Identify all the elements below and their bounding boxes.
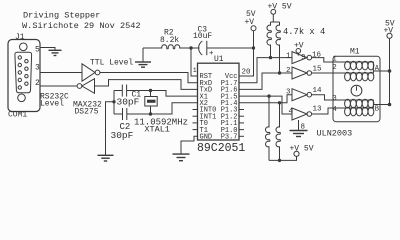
J1 mounting hole bottom [18, 94, 26, 102]
wire X1 row [114, 90, 122, 92]
buffer U2a (RxD receiver) [82, 64, 95, 81]
svg-text:P3.7: P3.7 [221, 134, 238, 142]
U1 left pin names [200, 73, 217, 141]
svg-text:5: 5 [35, 46, 40, 55]
svg-text:3: 3 [333, 95, 337, 103]
wire P1.6 to inverter2 [239, 73, 292, 89]
svg-text:2: 2 [333, 64, 337, 72]
capacitor C3 labels [193, 25, 212, 41]
motor M1 box [333, 56, 380, 122]
wire X2 row [114, 113, 123, 115]
ground (U1 GND) [173, 154, 190, 161]
terminal 5V +V (motor supply) [384, 19, 395, 35]
wire P1.7 to inverter1 [239, 58, 292, 83]
motor rotor symbol [351, 85, 362, 96]
inverter ULN2003 ch2 [292, 67, 307, 79]
wire GND to ground [181, 136, 198, 154]
svg-text:DS275: DS275 [75, 108, 99, 117]
svg-text:13: 13 [313, 106, 323, 114]
wire resistor bottoms to +V [269, 156, 297, 160]
terminal +V 5V (resistors bottom) [294, 151, 299, 156]
resistor R2 [143, 45, 191, 49]
coil winding 2 [345, 72, 374, 81]
wire resistor tops [272, 14, 274, 22]
capacitor C1 [121, 85, 123, 97]
J1 pin shroud trapezoid [15, 52, 32, 92]
wire ch2 out to motor coil 2 [312, 72, 342, 74]
resistor 4.7k c (bottom col1) [265, 96, 269, 160]
coil winding 3 [345, 99, 374, 108]
svg-text:30pF: 30pF [111, 130, 134, 141]
svg-text:4: 4 [333, 106, 337, 114]
capacitor C2 labels [111, 122, 134, 141]
node RST junction [189, 46, 192, 49]
inverter ULN2003 ch4 [292, 108, 307, 120]
wire cap ground rail [113, 91, 115, 115]
ground (ULN2003 pin 8) [290, 131, 308, 137]
terminal 5V +V (top middle) [245, 10, 256, 27]
resistor 4.7k a [267, 22, 271, 58]
wire TxD to inverter input [95, 80, 198, 90]
wire ch4 out to motor coil 4 [312, 108, 342, 114]
node C3/rail junction [252, 46, 255, 49]
svg-text:M1: M1 [350, 48, 360, 57]
U1 unconnected right pin stubs [239, 110, 244, 137]
capacitor C1 labels [117, 91, 142, 108]
svg-text:4.7k x 4: 4.7k x 4 [283, 27, 325, 37]
svg-text:TTL Level: TTL Level [90, 58, 133, 67]
wire P1.5 to inverter4 [239, 96, 292, 114]
svg-text:Level: Level [40, 100, 64, 109]
MAX232 DS275 label [73, 100, 102, 116]
svg-text:30pF: 30pF [117, 97, 140, 108]
wire buffer out to RxD [100, 73, 198, 83]
wire ch3 out to motor coil 3 [312, 95, 342, 100]
wire pin8 to ground [298, 120, 300, 131]
inverter ULN2003 ch1 [292, 52, 307, 64]
RS232C Level label [40, 92, 69, 108]
node rail junction [112, 100, 115, 103]
svg-text:3: 3 [286, 89, 291, 97]
svg-text:1: 1 [333, 56, 337, 64]
svg-text:+V 5V: +V 5V [290, 145, 314, 154]
svg-text:1: 1 [193, 67, 197, 74]
svg-text:15: 15 [313, 65, 323, 73]
svg-text:10uF: 10uF [193, 32, 212, 41]
resistor 4.7k b [276, 22, 280, 73]
node pulldown R col2 [278, 101, 281, 104]
wire C3 to 5V rail [207, 47, 254, 49]
svg-text:Driving Stepper: Driving Stepper [23, 11, 100, 21]
capacitor C2 [122, 108, 124, 120]
wire pin2 to MAX232 inverter output [40, 85, 77, 87]
U1 right pin names [221, 73, 238, 141]
svg-text:1: 1 [286, 52, 291, 60]
node A rail junction [388, 69, 392, 73]
node pullup R on inv1 wire [269, 56, 272, 59]
crystal labels [134, 118, 188, 135]
coil winding 1 [345, 61, 374, 70]
node crystal bottom [149, 112, 152, 115]
svg-text:8.2k: 8.2k [160, 36, 179, 45]
svg-text:W.Sirichote 29 Nov 2542: W.Sirichote 29 Nov 2542 [22, 21, 141, 31]
svg-text:J1: J1 [15, 33, 25, 42]
wire rail to ground stem [106, 102, 115, 156]
node crystal top [149, 89, 152, 92]
connector J1 DB9 outer box [8, 40, 40, 112]
svg-text:ULN2003: ULN2003 [317, 128, 353, 138]
wire coil pair A join [342, 62, 373, 73]
resistor R2 labels [160, 28, 179, 45]
svg-text:4: 4 [289, 108, 294, 116]
crystal XTAL1 [150, 91, 152, 97]
J1 pin circles [18, 56, 28, 89]
wire pin5 to ground [40, 48, 55, 51]
wire 5V rail to Vcc [239, 31, 254, 76]
IC U1 89C2051 box [198, 63, 240, 140]
svg-text:89C2051: 89C2051 [197, 142, 245, 155]
svg-text:2: 2 [35, 79, 40, 88]
inverter U2b (TxD driver) [82, 79, 95, 94]
capacitor C3 [191, 47, 200, 49]
svg-text:COM1: COM1 [8, 111, 27, 120]
wire motor 5V rail [389, 38, 391, 104]
wire B to 5V rail [373, 104, 389, 106]
wire P1.4 to inverter3 [239, 95, 292, 103]
resistor 4.7k d (bottom col2) [276, 103, 280, 161]
svg-text:GND: GND [200, 134, 213, 142]
title text [22, 11, 141, 32]
wire A to 5V rail [373, 70, 389, 72]
J1 mounting hole top [20, 43, 28, 51]
node B rail junction [388, 103, 392, 107]
wire C1 to X1 jog [127, 91, 198, 97]
svg-text:A: A [375, 65, 380, 73]
svg-text:3: 3 [35, 64, 40, 73]
wire RST [191, 48, 198, 76]
inverter ULN2003 ch3 [292, 89, 307, 101]
wire C2 to X2 jog [127, 103, 198, 114]
motor wire labels 1 2 3 4 [333, 56, 337, 115]
node pullup R on inv2 wire [278, 71, 281, 74]
node pulldown R col1 [267, 94, 270, 97]
svg-text:14: 14 [313, 87, 323, 95]
svg-text:20: 20 [242, 68, 252, 76]
U1 unconnected left pin stubs [193, 110, 198, 130]
ground (DB9 pin 5) [49, 50, 62, 55]
wire pin3 to TTL buffer [40, 72, 82, 74]
coil winding 4 [345, 107, 374, 116]
ground (R2) [142, 48, 144, 62]
svg-text:XTAL1: XTAL1 [144, 125, 170, 135]
wire ch1 out to motor coil 1 [312, 58, 342, 62]
svg-text:2: 2 [286, 67, 291, 75]
node resistor bottom join [278, 159, 281, 162]
ground (oscillator) [98, 155, 114, 161]
svg-text:B: B [375, 106, 379, 114]
wire coil pair B join [342, 100, 373, 108]
